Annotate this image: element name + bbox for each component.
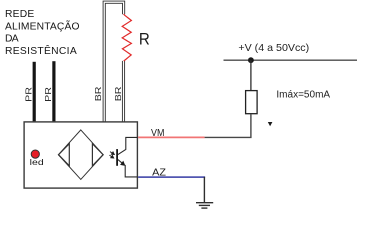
svg-text:PR: PR	[23, 87, 33, 102]
wire VM (red)	[138, 136, 205, 138]
light arrows	[109, 152, 114, 158]
wire PR2 (thick mains lead)	[52, 61, 55, 121]
svg-text:RESISTÊNCIA: RESISTÊNCIA	[5, 44, 77, 57]
wire BR1 (double-line wire up and over to resistor)	[104, 2, 123, 121]
svg-text:Imáx=50mA: Imáx=50mA	[276, 90, 330, 101]
resistor R2 (current limiting, rectangle body)	[246, 91, 258, 114]
led indicator dot	[31, 150, 39, 158]
svg-text:REDE: REDE	[5, 9, 34, 20]
resistor R (red zigzag)	[122, 14, 131, 61]
svg-text:BR: BR	[113, 87, 123, 102]
wire BR2 (double-line wire from resistor to box)	[122, 61, 125, 122]
wire PR1 (thick mains lead)	[33, 62, 36, 122]
optocoupler box U1	[24, 122, 137, 188]
+V rail	[224, 59, 358, 61]
label: REDE ALIMENTAÇÃO DA RESISTÊNCIA	[5, 9, 80, 57]
wire from rail to resistor R2	[250, 60, 252, 90]
svg-text:VM: VM	[151, 128, 164, 139]
wire from VM to limiting resistor (dark segment)	[205, 114, 251, 137]
svg-text:R: R	[139, 30, 150, 48]
diode triangle left	[59, 144, 70, 166]
diode triangle right	[92, 144, 103, 166]
svg-text:ALIMENTAÇÃO: ALIMENTAÇÃO	[5, 19, 80, 32]
node junction dot	[248, 57, 254, 63]
svg-text:led: led	[30, 157, 44, 167]
ground	[196, 177, 213, 208]
current direction arrow	[268, 122, 273, 126]
svg-text:PR: PR	[43, 87, 53, 102]
bridge diamond	[58, 130, 103, 180]
svg-text:+V (4 a 50Vcc): +V (4 a 50Vcc)	[238, 43, 309, 54]
svg-text:BR: BR	[93, 87, 103, 102]
phototransistor Q1	[117, 137, 137, 177]
svg-text:AZ: AZ	[152, 167, 166, 178]
wire AZ (blue)	[138, 176, 205, 178]
svg-text:DA: DA	[5, 34, 19, 45]
